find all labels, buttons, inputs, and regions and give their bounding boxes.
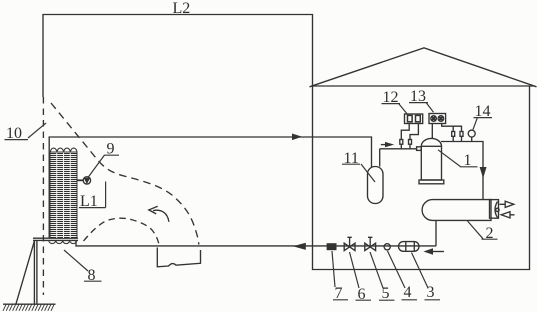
svg-text:11: 11 [344, 150, 359, 167]
svg-text:5: 5 [382, 285, 390, 302]
svg-text:14: 14 [475, 103, 491, 120]
svg-text:4: 4 [404, 284, 412, 301]
svg-text:13: 13 [410, 88, 426, 105]
svg-text:10: 10 [6, 125, 22, 142]
svg-text:12: 12 [383, 89, 399, 106]
svg-text:3: 3 [427, 284, 435, 301]
svg-text:8: 8 [88, 267, 96, 284]
svg-text:L1: L1 [80, 193, 98, 210]
svg-text:7: 7 [335, 285, 343, 302]
svg-text:9: 9 [107, 141, 115, 158]
svg-text:6: 6 [358, 286, 366, 303]
svg-text:1: 1 [464, 152, 472, 169]
svg-text:L2: L2 [173, 0, 191, 17]
svg-text:2: 2 [486, 225, 494, 242]
